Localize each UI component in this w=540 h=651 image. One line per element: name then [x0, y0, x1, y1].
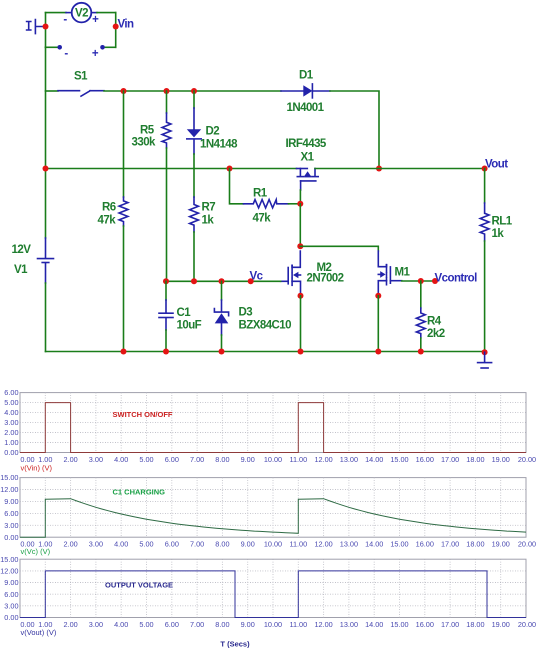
svg-text:18.00: 18.00 [466, 539, 484, 548]
svg-text:7.00: 7.00 [190, 455, 204, 464]
junction dots on top rail [121, 88, 198, 94]
svg-text:C1: C1 [177, 307, 192, 319]
n-mosfet M1 (mirrored, gate right) [378, 251, 401, 296]
wire mid rail right section to Vout [315, 168, 485, 170]
wire M1 source to bottom rail [377, 296, 379, 352]
ground [478, 352, 492, 368]
svg-text:R7: R7 [202, 202, 216, 214]
svg-text:v(Vin) (V): v(Vin) (V) [21, 464, 53, 473]
svg-text:2N7002: 2N7002 [307, 273, 344, 285]
svg-text:M1: M1 [395, 267, 411, 279]
svg-text:15.00: 15.00 [0, 555, 18, 564]
junction dot gate node [297, 201, 303, 207]
svg-text:T (Secs): T (Secs) [220, 640, 250, 649]
svg-text:1N4148: 1N4148 [200, 139, 238, 151]
label RL1 1k [492, 216, 513, 241]
svg-text:Vc: Vc [250, 271, 264, 283]
svg-text:3.00: 3.00 [89, 620, 103, 629]
label R6 47k [98, 202, 117, 227]
svg-text:4.00: 4.00 [114, 455, 128, 464]
label M2 2N7002 [307, 262, 344, 285]
svg-text:3.00: 3.00 [89, 455, 103, 464]
svg-text:V2: V2 [75, 8, 88, 20]
label D3 BZX84C10 [239, 307, 292, 332]
svg-text:16.00: 16.00 [416, 620, 434, 629]
svg-text:0.00: 0.00 [4, 613, 18, 622]
svg-text:12.00: 12.00 [314, 620, 332, 629]
wire drain node to M1 drain [300, 246, 378, 251]
svg-text:9.00: 9.00 [241, 620, 255, 629]
svg-text:1k: 1k [492, 228, 505, 240]
svg-text:12.00: 12.00 [314, 455, 332, 464]
svg-text:3.00: 3.00 [4, 418, 18, 427]
plot panel 2: C1 charging v(Vc) [0, 473, 536, 556]
svg-text:19.00: 19.00 [492, 620, 510, 629]
svg-text:D2: D2 [206, 126, 220, 138]
svg-text:1.00: 1.00 [38, 455, 52, 464]
diode D2 1N4148 [187, 91, 201, 169]
junction dot drain node [297, 243, 303, 249]
input port I [27, 20, 43, 34]
junction dot M2 source [298, 293, 304, 299]
label C1 10uF [177, 307, 202, 332]
svg-text:11.00: 11.00 [289, 539, 307, 548]
svg-text:C1 CHARGING: C1 CHARGING [113, 487, 166, 496]
n-mosfet M2 [281, 251, 301, 296]
svg-text:17.00: 17.00 [441, 620, 459, 629]
wire V2 loop top-right [91, 12, 115, 14]
svg-text:20.00: 20.00 [518, 620, 536, 629]
wire V2 loop bottom-left [46, 46, 60, 48]
svg-text:11.00: 11.00 [289, 455, 307, 464]
junction dots Vc rail [163, 278, 254, 284]
svg-text:0.00: 0.00 [20, 455, 34, 464]
svg-text:0.00: 0.00 [4, 448, 18, 457]
svg-text:8.00: 8.00 [215, 539, 229, 548]
resistor R1 [230, 169, 301, 208]
svg-text:V1: V1 [14, 264, 28, 276]
svg-text:+: + [92, 14, 99, 26]
svg-text:Vcontrol: Vcontrol [435, 273, 478, 285]
wire mid rail left section [46, 168, 297, 170]
svg-text:v(Vc) (V): v(Vc) (V) [21, 547, 51, 556]
resistor R6 [119, 91, 128, 352]
junction dots mid rail [43, 166, 383, 172]
svg-text:19.00: 19.00 [492, 455, 510, 464]
svg-text:18.00: 18.00 [466, 620, 484, 629]
svg-text:6.00: 6.00 [4, 388, 18, 397]
svg-text:6.00: 6.00 [4, 509, 18, 518]
node Vin junction dots [43, 24, 119, 30]
svg-text:1.00: 1.00 [4, 438, 18, 447]
svg-text:6.00: 6.00 [165, 539, 179, 548]
svg-text:X1: X1 [301, 152, 315, 164]
svg-text:9.00: 9.00 [4, 497, 18, 506]
svg-text:RL1: RL1 [492, 216, 513, 228]
wire bottom rail [46, 351, 485, 353]
zener diode D3 [214, 281, 228, 351]
label R1 47k [253, 188, 272, 225]
svg-text:9.00: 9.00 [4, 578, 18, 587]
svg-text:R4: R4 [427, 316, 442, 328]
svg-text:14.00: 14.00 [365, 539, 383, 548]
label R5 330k [132, 125, 157, 149]
resistor R5 [162, 91, 171, 281]
resistor RL1 [480, 169, 489, 353]
svg-text:Vout: Vout [485, 159, 508, 171]
svg-text:10.00: 10.00 [264, 455, 282, 464]
svg-text:9.00: 9.00 [241, 455, 255, 464]
wire V2 loop top-left [46, 12, 72, 14]
svg-text:R1: R1 [253, 188, 268, 200]
svg-text:15.00: 15.00 [390, 620, 408, 629]
svg-text:R5: R5 [140, 125, 155, 137]
junction dot M1 source [375, 293, 381, 299]
wire gate node down [299, 204, 301, 247]
svg-text:D1: D1 [299, 70, 314, 82]
label R4 2k2 [427, 316, 445, 341]
svg-text:4.00: 4.00 [114, 539, 128, 548]
svg-text:11.00: 11.00 [289, 620, 307, 629]
svg-text:+: + [92, 48, 99, 60]
svg-text:6.00: 6.00 [165, 455, 179, 464]
svg-text:13.00: 13.00 [340, 455, 358, 464]
switch S1 [46, 91, 282, 97]
label 12V V1 [12, 244, 32, 276]
junction dots bottom rail [121, 349, 488, 356]
svg-text:18.00: 18.00 [466, 455, 484, 464]
svg-text:IRF4435: IRF4435 [286, 138, 327, 150]
svg-text:OUTPUT VOLTAGE: OUTPUT VOLTAGE [105, 580, 173, 589]
battery V1 [38, 238, 54, 283]
svg-text:R6: R6 [102, 202, 116, 214]
svg-text:5.00: 5.00 [139, 620, 153, 629]
svg-text:5.00: 5.00 [139, 455, 153, 464]
svg-text:15.00: 15.00 [390, 539, 408, 548]
node Vout dot [482, 166, 488, 172]
resistor R4 [416, 281, 425, 352]
svg-text:20.00: 20.00 [518, 455, 536, 464]
svg-text:2.00: 2.00 [63, 539, 77, 548]
svg-text:12V: 12V [12, 244, 32, 256]
svg-text:0.00: 0.00 [4, 533, 18, 542]
svg-text:14.00: 14.00 [365, 620, 383, 629]
plot panel 1: switch on/off v(Vin) [4, 388, 536, 472]
svg-text:SWITCH ON/OFF: SWITCH ON/OFF [113, 410, 173, 419]
svg-text:8.00: 8.00 [215, 620, 229, 629]
svg-text:3.00: 3.00 [4, 521, 18, 530]
svg-text:15.00: 15.00 [0, 473, 18, 482]
svg-text:15.00: 15.00 [390, 455, 408, 464]
svg-text:10uF: 10uF [177, 320, 202, 332]
svg-text:13.00: 13.00 [340, 620, 358, 629]
switch S1 control terminal dots and polarity [57, 45, 104, 60]
svg-text:6.00: 6.00 [4, 590, 18, 599]
svg-text:1k: 1k [202, 215, 215, 227]
wire left rail (Vin loop down to battery) [45, 47, 47, 238]
svg-text:10.00: 10.00 [264, 620, 282, 629]
svg-text:8.00: 8.00 [215, 455, 229, 464]
svg-text:6.00: 6.00 [165, 620, 179, 629]
svg-text:1N4001: 1N4001 [287, 102, 325, 114]
svg-text:13.00: 13.00 [340, 539, 358, 548]
svg-text:2.00: 2.00 [63, 620, 77, 629]
svg-text:2.00: 2.00 [63, 455, 77, 464]
svg-text:12.00: 12.00 [0, 485, 18, 494]
voltage source V2 [63, 3, 99, 26]
svg-text:3.00: 3.00 [89, 539, 103, 548]
svg-text:12.00: 12.00 [314, 539, 332, 548]
svg-text:3.00: 3.00 [4, 601, 18, 610]
svg-text:5.00: 5.00 [4, 398, 18, 407]
wire V2 loop right vertical [115, 13, 117, 48]
wire battery to bottom rail [45, 283, 47, 352]
wire D1 to mid rail [330, 91, 379, 169]
svg-text:4.00: 4.00 [4, 408, 18, 417]
diode D1 1N4001 [281, 84, 330, 98]
svg-text:2k2: 2k2 [427, 328, 445, 340]
svg-text:7.00: 7.00 [190, 539, 204, 548]
svg-text:7.00: 7.00 [190, 620, 204, 629]
svg-text:19.00: 19.00 [492, 539, 510, 548]
svg-text:S1: S1 [74, 71, 88, 83]
svg-text:17.00: 17.00 [441, 539, 459, 548]
plot panel 3: output voltage v(Vout) [0, 555, 536, 649]
svg-text:47k: 47k [98, 215, 117, 227]
junction dots Vcontrol [418, 278, 438, 284]
svg-text:16.00: 16.00 [416, 455, 434, 464]
svg-text:Vin: Vin [118, 19, 135, 31]
resistor R7 [190, 169, 199, 282]
svg-text:10.00: 10.00 [264, 539, 282, 548]
svg-text:12.00: 12.00 [0, 567, 18, 576]
wire X1 gate to R1 node [299, 190, 301, 204]
wire M2 source to bottom rail [300, 296, 302, 352]
svg-text:14.00: 14.00 [365, 455, 383, 464]
wire V2 loop left vertical [45, 13, 47, 48]
label D2 1N4148 [200, 126, 238, 151]
wire M1 gate to Vcontrol [402, 280, 435, 282]
svg-text:2.00: 2.00 [4, 428, 18, 437]
svg-text:16.00: 16.00 [416, 539, 434, 548]
svg-text:v(Vout) (V): v(Vout) (V) [21, 628, 57, 637]
label R7 1k [202, 202, 216, 227]
svg-text:330k: 330k [132, 137, 157, 149]
capacitor C1 [159, 281, 173, 351]
svg-text:20.00: 20.00 [518, 539, 536, 548]
label IRF4435 X1 [286, 138, 327, 164]
wire V2 loop bottom-right [103, 46, 116, 48]
wire Vc rail [166, 280, 281, 282]
svg-text:4.00: 4.00 [114, 620, 128, 629]
svg-text:47k: 47k [253, 213, 272, 225]
p-mosfet X1 [297, 169, 319, 191]
svg-text:BZX84C10: BZX84C10 [239, 320, 292, 332]
svg-text:17.00: 17.00 [441, 455, 459, 464]
svg-text:9.00: 9.00 [241, 539, 255, 548]
svg-text:D3: D3 [239, 307, 253, 319]
svg-text:5.00: 5.00 [139, 539, 153, 548]
